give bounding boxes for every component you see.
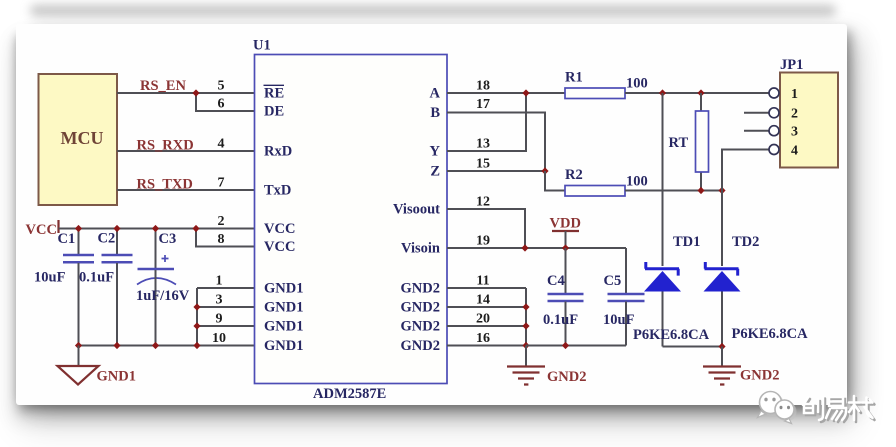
pin name Z [430,164,440,180]
junction VCC rail at C3 [152,225,159,232]
svg-text:JP1: JP1 [780,57,803,73]
pin number 8 [218,232,225,247]
svg-text:Z: Z [430,164,440,180]
capacitor C3 (polarized) [136,229,190,346]
pin name RxD [264,144,292,160]
junction TD1 on net A [659,89,666,96]
svg-text:GND1: GND1 [264,281,303,297]
svg-text:P6KE6.8CA: P6KE6.8CA [732,326,809,342]
pin number 2 [218,214,225,229]
ground GND1 [58,346,136,385]
pin name GND2 pin14 [401,300,440,316]
svg-text:P6KE6.8CA: P6KE6.8CA [633,327,710,343]
pin number 11 [476,274,489,289]
junction GND2 bus pin14 [522,303,529,310]
junction C4 bottom [562,342,569,349]
svg-text:6: 6 [218,97,225,112]
pin name Visoin [401,241,440,257]
svg-text:TxD: TxD [264,183,291,199]
svg-text:GND2: GND2 [401,281,440,297]
svg-text:14: 14 [476,293,490,308]
svg-text:GND2: GND2 [740,368,779,384]
svg-text:11: 11 [476,274,489,289]
pin number 7 [218,176,225,191]
svg-text:Visoin: Visoin [401,241,440,257]
svg-text:RS_RXD: RS_RXD [137,138,194,154]
pin number 1 [216,274,223,289]
svg-text:ADM2587E: ADM2587E [313,386,386,402]
wire GND1 pin bus (pins 1,3,9) [197,288,255,346]
svg-text:4: 4 [791,144,798,159]
pin name Y [430,144,441,160]
svg-text:3: 3 [216,293,223,308]
wire net Y pin13 up to A [447,93,526,151]
svg-text:R1: R1 [565,70,583,86]
connector JP1 [780,57,838,168]
op chip U1 ADM2587E [253,38,447,403]
watermark text 创易栈 [803,396,875,422]
junction VCC rail at pin8 branch [192,225,199,232]
power port VCC [26,220,59,238]
pin name GND1 pin1 [264,281,303,297]
svg-text:RS_EN: RS_EN [140,78,186,94]
capacitor C4 [543,248,584,346]
wire branch pin2 to pin8 [196,229,255,247]
pin number 15 [476,157,490,172]
pin number 3 [216,293,223,308]
junction GND rail at C1 [75,342,82,349]
junction VDD/C4 on Visoin rail [562,244,569,251]
resistor RT [669,93,709,191]
svg-text:GND2: GND2 [401,300,440,316]
junction Y joins A [522,89,529,96]
svg-text:RE: RE [264,86,284,102]
pin number 20 [476,312,490,327]
wire net B pin17 down [447,113,545,172]
JP1 pin 2 [744,107,798,122]
svg-text:9: 9 [216,312,223,327]
wire GND2 pin bus (pins 11,14,20,16) [447,288,526,346]
capacitor C1 [34,229,94,346]
pin number 4 [218,137,225,152]
junction GND rail at C2 [113,342,120,349]
pin name GND1 pin10 [264,338,303,354]
wire VCC rail to pin 2 [59,228,256,230]
pin name Visoout [393,202,440,218]
svg-text:VCC: VCC [264,221,295,237]
wire Visoin pin19 rail [447,247,626,249]
pin name GND2 pin20 [401,319,440,335]
resistor R1 100 [565,70,648,99]
svg-text:5: 5 [218,79,225,94]
pin name B [430,105,440,121]
watermark logo chat icon [758,392,797,424]
pin name VCC pin8 [264,239,295,255]
svg-text:RT: RT [669,135,689,151]
svg-text:4: 4 [218,137,225,152]
svg-text:100: 100 [626,174,648,190]
wire RS_EN (MCU to pin 5) [117,92,255,94]
svg-text:GND1: GND1 [97,369,136,385]
wire GND1 bottom rail [79,345,256,347]
wire RS_RXD (MCU to pin 4) [117,150,255,152]
net label RS_RXD [137,138,194,154]
wire R2 output to TD2 node [625,190,722,192]
junction GND rail at C3 [152,342,159,349]
svg-text:7: 7 [218,176,225,191]
pin number 10 [212,331,226,346]
svg-text:VCC: VCC [264,239,295,255]
svg-text:8: 8 [218,232,225,247]
pin name GND2 pin16 [401,338,440,354]
junction GND bus pin9 [193,322,200,329]
svg-text:A: A [430,86,441,102]
pin name GND1 pin9 [264,319,303,335]
svg-text:C4: C4 [547,273,565,289]
pin number 12 [476,195,490,210]
svg-text:RxD: RxD [264,144,292,160]
svg-text:GND2: GND2 [547,369,586,385]
pin name GND2 pin11 [401,281,440,297]
ground GND2 right [703,347,779,385]
junction B joins Z [541,167,548,174]
svg-text:DE: DE [264,104,284,120]
junction VCC rail at C2 [113,225,120,232]
svg-text:18: 18 [476,79,490,94]
svg-text:10uF: 10uF [603,312,635,328]
capacitor C2 [79,229,133,346]
svg-text:GND1: GND1 [264,300,303,316]
wire branch pin5 to pin6 [196,93,255,111]
MCU block [39,74,118,205]
power port VDD [550,216,581,249]
pin number 6 [218,97,225,112]
pin number 5 [218,79,225,94]
svg-text:GND1: GND1 [264,319,303,335]
svg-text:VDD: VDD [550,216,581,232]
pin number 18 [476,79,490,94]
svg-text:100: 100 [626,76,648,92]
svg-text:1: 1 [216,274,223,289]
svg-text:C3: C3 [159,231,177,247]
wire TD1 bottom to TD2 bottom [663,346,723,348]
svg-text:C2: C2 [98,231,116,247]
pin name TxD [264,183,291,199]
junction GND2 bus pin16 [522,342,529,349]
wire Visoout pin12 [447,209,525,248]
junction GND2 bus pin20 [522,322,529,329]
pin name GND1 pin3 [264,300,303,316]
net label RS_TXD [137,177,193,193]
pin name VCC pin2 [264,221,295,237]
svg-text:13: 13 [476,137,490,152]
ground GND2 left [507,346,586,386]
svg-text:19: 19 [476,234,490,249]
svg-text:1uF/16V: 1uF/16V [136,288,190,304]
pin number 19 [476,234,490,249]
svg-text:U1: U1 [253,38,271,54]
pin name A [430,86,441,102]
capacitor C5 [603,248,645,346]
svg-text:VCC: VCC [26,222,57,238]
junction GND bus pin10 [193,342,200,349]
svg-text:1: 1 [791,87,798,102]
pin number 16 [476,331,490,346]
wire net Z pin15 [447,170,545,172]
svg-text:16: 16 [476,331,490,346]
svg-text:0.1uF: 0.1uF [543,312,578,328]
JP1 pin 3 [744,125,798,140]
svg-text:15: 15 [476,157,490,172]
svg-text:Visoout: Visoout [393,202,440,218]
junction RT top on net A [697,89,704,96]
svg-text:B: B [430,105,440,121]
JP1 pin 4 [722,144,798,191]
svg-text:GND1: GND1 [264,338,303,354]
svg-text:R2: R2 [565,167,583,183]
junction TD ground node [718,343,725,350]
svg-text:2: 2 [218,214,225,229]
svg-text:GND2: GND2 [401,319,440,335]
svg-text:RS_TXD: RS_TXD [137,177,193,193]
svg-text:2: 2 [791,107,798,122]
wire R1 output to JP1 pin1 [625,92,769,94]
pin name RE with overline [264,85,285,101]
junction RT bottom on net B [697,187,704,194]
resistor R2 100 [565,167,648,196]
pin number 13 [476,137,490,152]
svg-text:12: 12 [476,195,490,210]
pin name DE [264,104,284,120]
svg-text:TD1: TD1 [673,234,700,250]
wire R2 input [545,171,565,191]
svg-text:0.1uF: 0.1uF [79,270,114,286]
pin number 14 [476,293,490,308]
JP1 pin 1 [769,87,798,102]
svg-text:TD2: TD2 [732,234,759,250]
junction Visoout joins Visoin [521,244,528,251]
net label RS_EN [140,78,186,94]
junction pin5 branch [192,89,199,96]
junction VCC rail at C1 [75,225,82,232]
svg-text:Y: Y [430,144,441,160]
svg-text:3: 3 [791,125,798,140]
svg-text:17: 17 [476,97,490,112]
wire GND2 rail under C4 C5 [526,345,626,347]
wire RS_TXD (MCU to pin 7) [117,189,255,191]
junction GND bus pin3 [193,303,200,310]
svg-text:10uF: 10uF [34,270,66,286]
svg-text:20: 20 [476,312,490,327]
svg-text:GND2: GND2 [401,338,440,354]
svg-text:C5: C5 [604,273,622,289]
svg-text:C1: C1 [58,231,76,247]
TVS diode TD1 P6KE6.8CA [633,93,710,347]
svg-text:MCU: MCU [61,128,104,148]
wire net A pin18 to R1 [447,92,565,94]
pin number 17 [476,97,490,112]
pin number 9 [216,312,223,327]
junction TD2/JP1pin4 on net B [718,187,725,194]
svg-text:10: 10 [212,331,226,346]
TVS diode TD2 P6KE6.8CA [704,191,809,347]
